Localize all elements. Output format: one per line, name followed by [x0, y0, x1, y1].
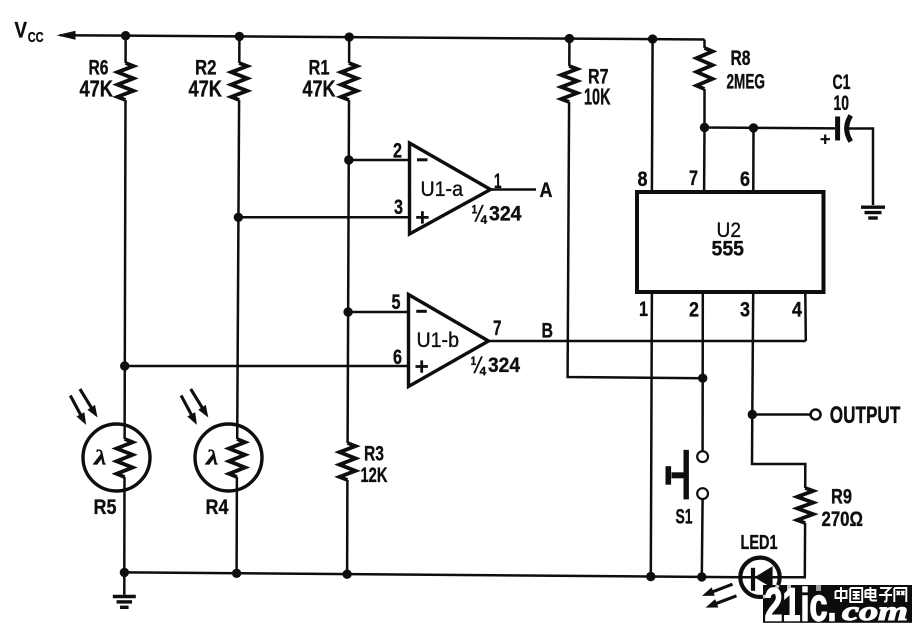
node rail-R4 — [232, 569, 241, 578]
svg-text:12K: 12K — [361, 464, 388, 487]
svg-text:C1: C1 — [833, 71, 851, 94]
node Vcc-R2 — [235, 32, 244, 41]
svg-text:47K: 47K — [303, 76, 336, 102]
svg-text:21ic.: 21ic. — [765, 579, 837, 624]
svg-text:10: 10 — [834, 92, 850, 115]
wire R2 to U1-a pin3 — [238, 216, 409, 219]
U1-a minus — [417, 158, 428, 161]
wire R6 to U1-b pin6 — [125, 365, 408, 368]
node pin3-output — [748, 410, 757, 419]
watermark chinese text — [836, 587, 847, 602]
svg-text:U1-a: U1-a — [421, 178, 464, 201]
wire R1 to U1-a pin2 — [349, 159, 409, 162]
LED1 — [741, 576, 781, 579]
node rail-S1 — [697, 572, 706, 581]
svg-text:3: 3 — [740, 299, 750, 322]
node Vcc-pin8 — [648, 34, 657, 43]
resistor R6 — [124, 36, 127, 63]
svg-text:R3: R3 — [364, 443, 384, 466]
wire R8 to C1 — [705, 126, 836, 129]
svg-text:¼: ¼ — [471, 352, 487, 379]
wire pin8 — [651, 39, 654, 192]
svg-text:CC: CC — [28, 29, 44, 46]
svg-text:λ: λ — [93, 446, 107, 470]
resistor R7 — [568, 39, 571, 66]
op-amp U1-b — [409, 295, 489, 387]
U1-b minus — [416, 310, 427, 313]
ground main — [123, 572, 126, 594]
node pin2-R7 — [698, 374, 707, 383]
node Vcc-R7 — [565, 34, 574, 43]
wire C1 to ground — [849, 129, 873, 206]
wire pin2 to S1 — [701, 292, 704, 451]
svg-text:LED1: LED1 — [741, 532, 778, 554]
wire U1-b output B line — [489, 340, 806, 343]
svg-text:2MEG: 2MEG — [727, 71, 766, 94]
svg-text:R5: R5 — [94, 496, 117, 519]
wire U1-a output — [491, 188, 537, 191]
svg-text:7: 7 — [493, 317, 502, 340]
ground C1 — [861, 205, 885, 208]
LED1 light arrows — [709, 584, 733, 593]
svg-text:8: 8 — [638, 168, 648, 191]
svg-text:47K: 47K — [80, 76, 114, 102]
node R8-pin7 — [700, 123, 709, 132]
watermark 21ic.com box — [763, 585, 912, 623]
photoresistor R5 — [83, 424, 150, 491]
svg-text:S1: S1 — [676, 506, 693, 529]
svg-text:λ: λ — [205, 446, 219, 470]
op-amp U1-a — [410, 143, 491, 234]
svg-text:B: B — [542, 320, 554, 343]
wire bottom rail — [124, 572, 741, 577]
svg-text:270Ω: 270Ω — [822, 508, 864, 531]
node Vcc-R6 — [121, 31, 130, 40]
svg-text:324: 324 — [488, 354, 520, 377]
node R2-pin3 — [234, 213, 243, 222]
wire R1 to U1-b pin5 — [348, 311, 408, 314]
node R1-pin5 — [343, 307, 352, 316]
resistor R8 — [703, 40, 706, 49]
svg-text:4: 4 — [792, 299, 802, 322]
svg-text:1: 1 — [639, 298, 648, 321]
resistor R2 — [238, 36, 241, 63]
wire pin4 to B — [804, 292, 807, 341]
svg-text:R4: R4 — [206, 496, 229, 519]
svg-text:10K: 10K — [584, 84, 611, 110]
svg-text:3: 3 — [394, 196, 403, 219]
R4 light arrows — [181, 396, 193, 419]
svg-text:R8: R8 — [731, 47, 751, 70]
node rail-R5 — [120, 568, 129, 577]
svg-text:2: 2 — [689, 299, 699, 322]
svg-text:R9: R9 — [831, 486, 852, 509]
node Vcc-R1 — [345, 32, 354, 41]
C1 plus — [821, 135, 831, 145]
wire S1 to rail — [701, 499, 704, 577]
node C1-pin6 — [749, 123, 758, 132]
svg-text:6: 6 — [393, 346, 402, 369]
svg-text:555: 555 — [712, 238, 745, 261]
svg-text:A: A — [540, 179, 553, 202]
svg-text:47K: 47K — [189, 76, 223, 102]
resistor R9 — [797, 488, 813, 523]
svg-text:7: 7 — [689, 167, 698, 190]
wire top Vcc rail — [60, 35, 705, 39]
svg-text:6: 6 — [740, 168, 750, 191]
node rail-pin1 — [646, 572, 655, 581]
node rail-R3 — [342, 570, 351, 579]
svg-text:2: 2 — [393, 140, 402, 163]
wire pin1 to rail — [651, 292, 652, 577]
IC U2 555 — [637, 192, 824, 292]
resistor R1 — [348, 37, 351, 63]
U1-b plus — [416, 360, 428, 372]
capacitor C1 — [835, 117, 840, 141]
svg-text:5: 5 — [392, 291, 401, 314]
R5 light arrows — [70, 396, 82, 419]
wire pin6 — [752, 128, 755, 192]
svg-text:OUTPUT: OUTPUT — [830, 402, 901, 429]
node R1-pin2 — [344, 155, 353, 164]
OUTPUT terminal — [811, 410, 821, 420]
svg-text:U1-b: U1-b — [417, 329, 460, 352]
svg-text:¼: ¼ — [472, 201, 488, 228]
node R6-pin6 — [120, 361, 129, 370]
wire to OUTPUT terminal — [752, 413, 810, 416]
svg-text:V: V — [15, 18, 28, 43]
resistor R3 — [340, 443, 356, 480]
switch S1 — [697, 451, 708, 462]
svg-text:324: 324 — [489, 203, 522, 226]
photoresistor R4 — [195, 424, 262, 491]
U1-a plus — [416, 211, 428, 223]
Vcc arrow — [57, 31, 76, 40]
wire pin3 down — [752, 292, 805, 488]
wire pin7 — [703, 128, 706, 193]
